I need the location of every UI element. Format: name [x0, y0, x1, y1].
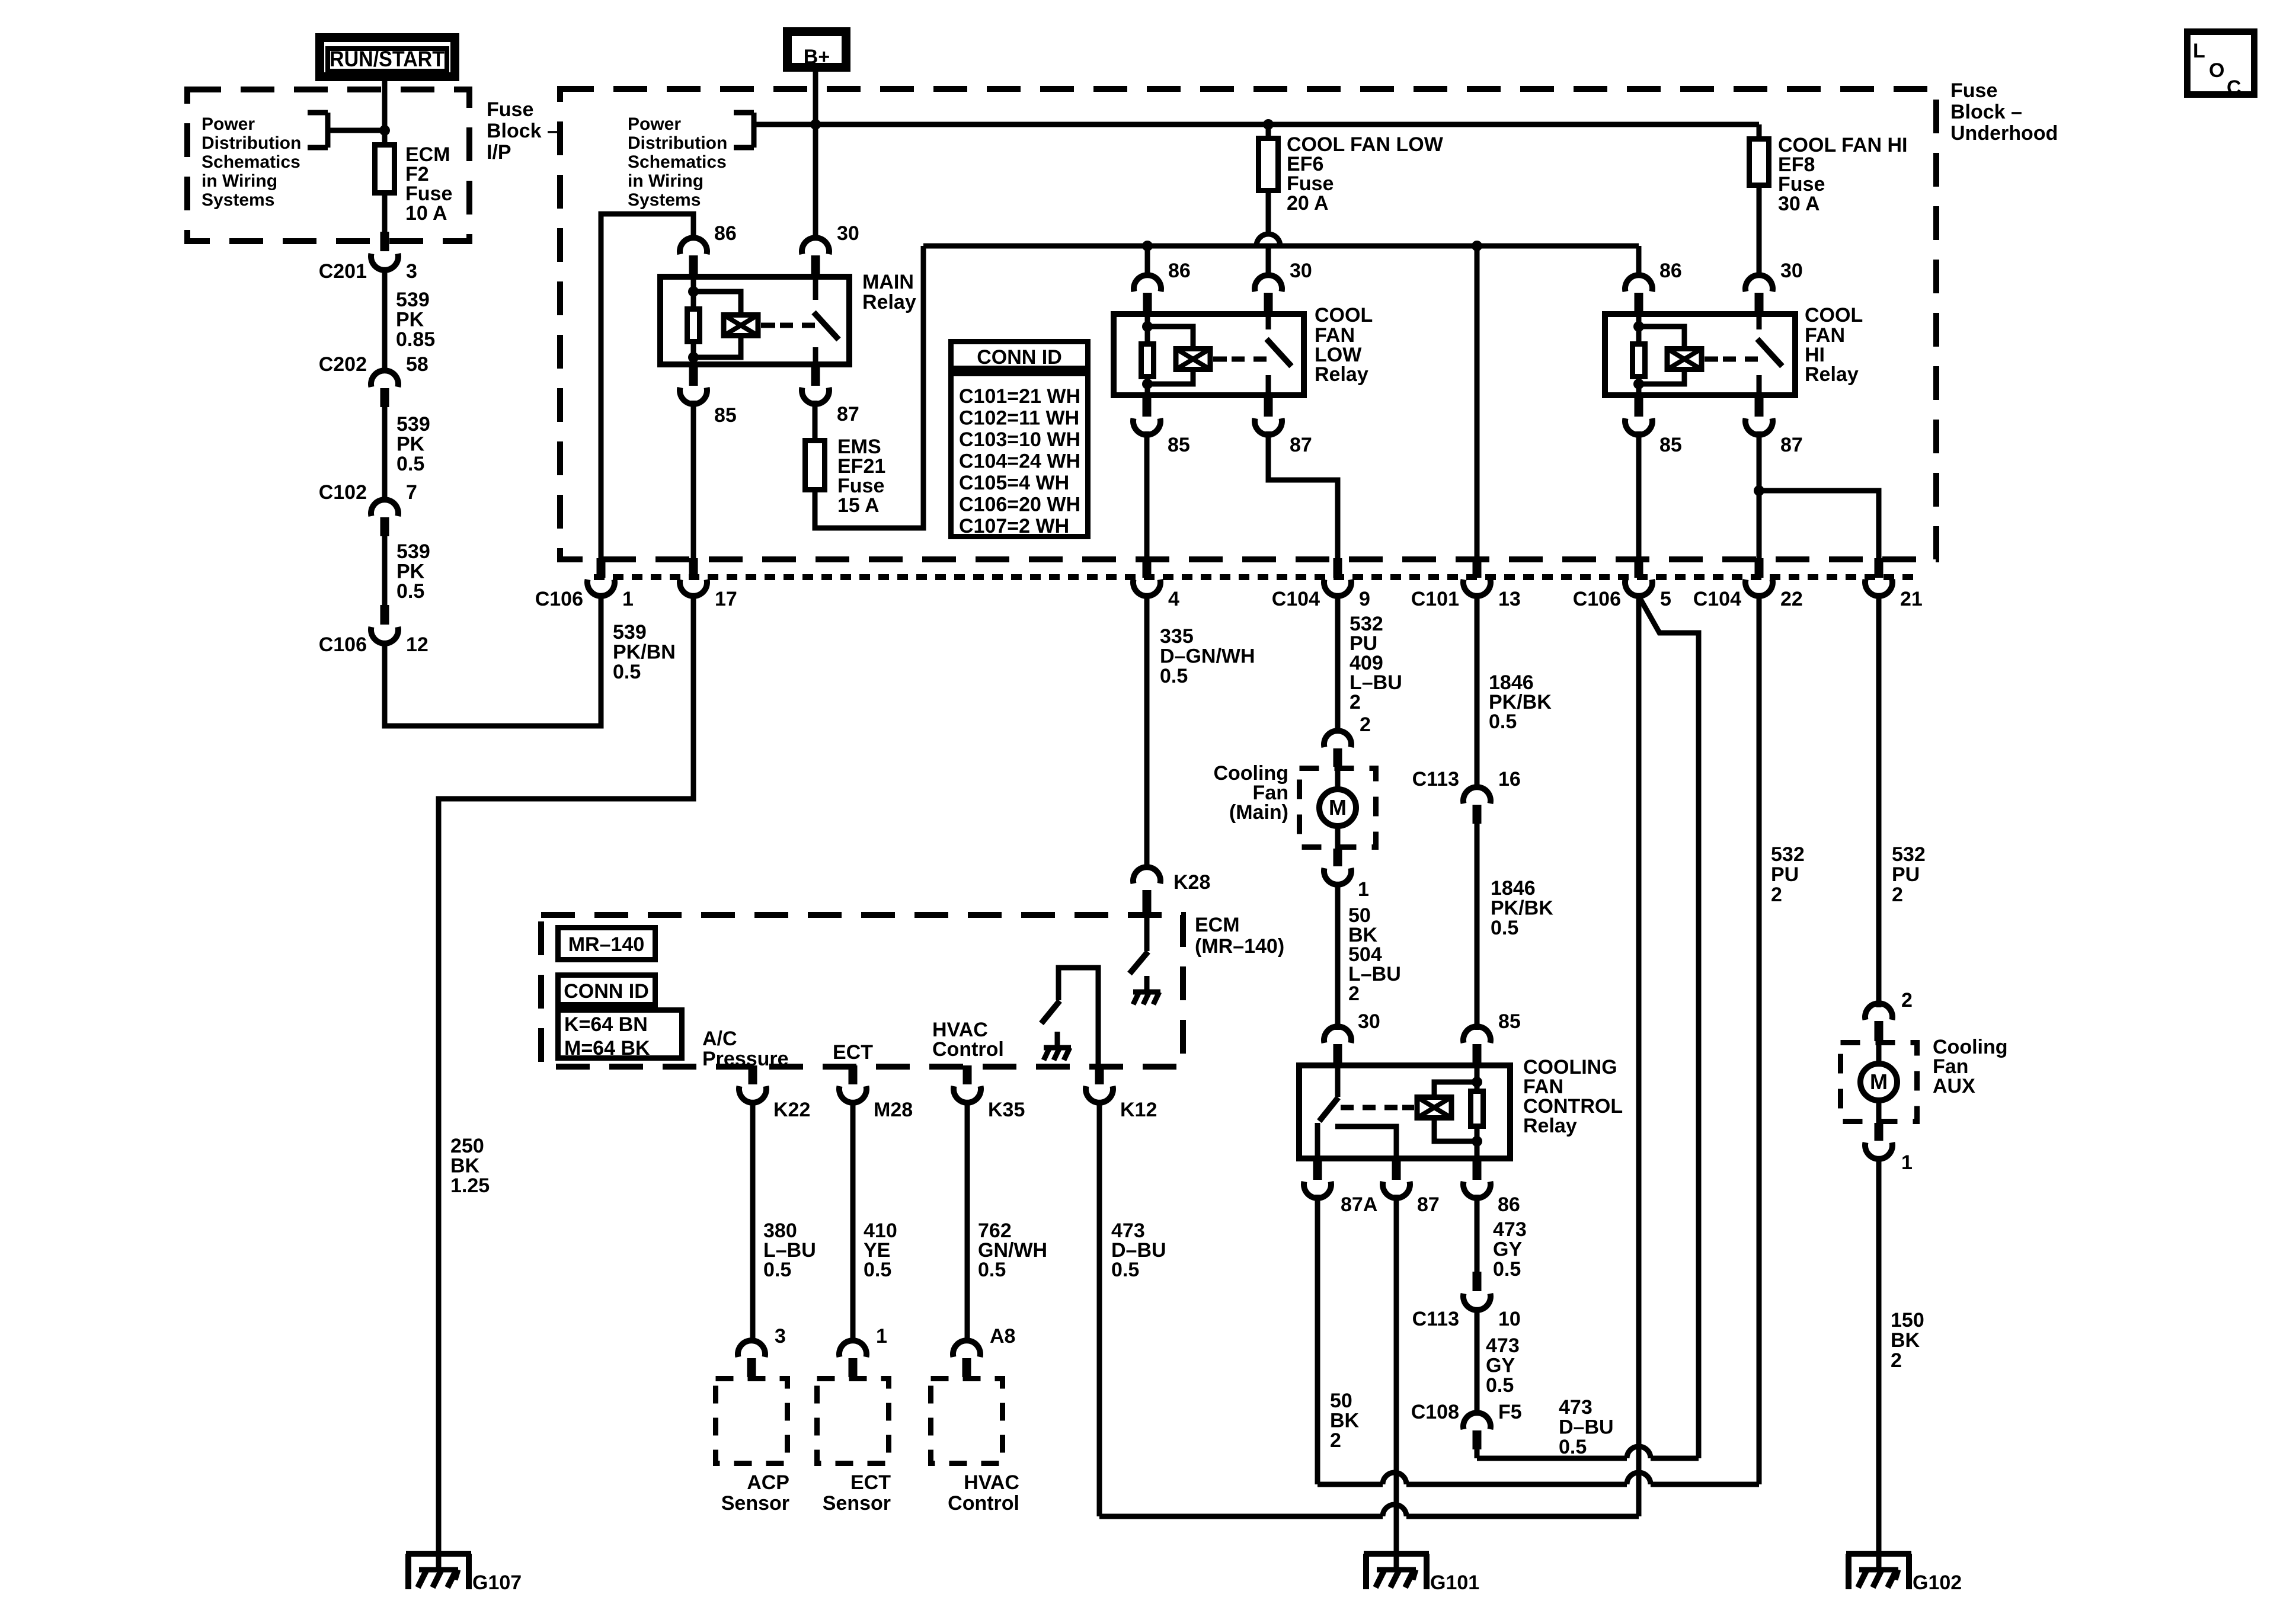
- motor Cooling Fan (Main): [1300, 769, 1376, 847]
- svg-text:Control: Control: [948, 1492, 1019, 1515]
- control relay switch: [1335, 1062, 1341, 1097]
- svg-text:C202: C202: [319, 353, 367, 376]
- control relay coil: [1417, 1097, 1451, 1118]
- svg-text:Sensor: Sensor: [721, 1492, 789, 1515]
- svg-text:in Wiring: in Wiring: [202, 171, 277, 191]
- wire control 86 down to C113-10: [1475, 1195, 1480, 1272]
- svg-text:2: 2: [1330, 1429, 1341, 1452]
- svg-text:30 A: 30 A: [1778, 193, 1820, 215]
- svg-text:Distribution: Distribution: [202, 133, 301, 153]
- HI relay pin 85 connector: [1635, 397, 1643, 417]
- LOW relay pin 87 connector: [1264, 397, 1273, 417]
- wire K12 to C106-5 run: [1097, 1102, 1102, 1516]
- HI relay pin 87 connector: [1755, 397, 1764, 417]
- svg-text:539: 539: [396, 540, 430, 563]
- svg-text:58: 58: [406, 353, 428, 376]
- bracket to B+ feed: [734, 110, 754, 116]
- svg-text:12: 12: [406, 633, 428, 656]
- svg-text:C103=10 WH: C103=10 WH: [959, 428, 1080, 451]
- svg-text:539: 539: [396, 289, 430, 311]
- connector C113 pin 16: [1463, 787, 1491, 804]
- wire LOW 87 jog to boundary C104-9: [1268, 431, 1338, 559]
- Fuse Block - I/P dashed outline: [187, 89, 469, 241]
- ECT Sensor dashed box: [817, 1379, 889, 1464]
- LOW relay pin 86 connector: [1134, 275, 1161, 292]
- connector sensor pin A8: [953, 1340, 980, 1357]
- svg-text:0.5: 0.5: [1489, 710, 1517, 733]
- wire C104-22 down, left to control 87A: [1757, 594, 1762, 1484]
- svg-text:9: 9: [1359, 588, 1370, 610]
- wire control 87 to G101: [1394, 1195, 1399, 1551]
- svg-text:86: 86: [1168, 260, 1191, 282]
- svg-text:Underhood: Underhood: [1950, 122, 2058, 145]
- wire bus corner to EF8 fuse: [1757, 124, 1762, 136]
- svg-text:335: 335: [1160, 625, 1194, 648]
- wire 473 D-BU K12 to C106-5: [1099, 1514, 1383, 1519]
- wire boundary 9 to cooling fan main: [1335, 594, 1341, 734]
- svg-text:COOL: COOL: [1805, 304, 1863, 327]
- wire HI 85 to boundary C106-5: [1636, 431, 1642, 559]
- svg-text:13: 13: [1498, 588, 1521, 610]
- svg-text:C113: C113: [1412, 768, 1459, 790]
- svg-text:150: 150: [1891, 1309, 1924, 1331]
- svg-text:10: 10: [1498, 1308, 1521, 1330]
- svg-text:G107: G107: [472, 1571, 522, 1594]
- svg-text:3: 3: [775, 1325, 786, 1347]
- wire EF6 to LOW relay 30: [1266, 246, 1271, 277]
- svg-text:A/C: A/C: [702, 1028, 737, 1050]
- control relay pin 86 connector: [1473, 1160, 1482, 1180]
- svg-text:C106=20 WH: C106=20 WH: [959, 494, 1080, 516]
- svg-text:RUN/START: RUN/START: [330, 47, 445, 71]
- svg-text:0.5: 0.5: [1493, 1258, 1521, 1281]
- relay MAIN Relay: [660, 277, 849, 364]
- MAIN relay pin 85 connector: [689, 366, 698, 386]
- MAIN relay switch: [761, 323, 775, 328]
- Fuse Block - Underhood dashed outline: [560, 89, 1936, 559]
- svg-text:1: 1: [622, 588, 634, 610]
- fuse COOL FAN LOW EF6 20A: [1259, 139, 1278, 191]
- CONN ID table: [951, 342, 1088, 369]
- svg-text:2: 2: [1360, 713, 1371, 736]
- fuse EMS EF21 15A: [805, 441, 825, 490]
- relay COOLING FAN CONTROL: [1299, 1065, 1510, 1158]
- wire 150 BK 2 to G102: [1876, 1158, 1882, 1551]
- svg-text:Block –: Block –: [487, 120, 558, 142]
- svg-text:1: 1: [1901, 1151, 1913, 1174]
- svg-text:GY: GY: [1486, 1355, 1515, 1377]
- svg-text:O: O: [2209, 59, 2224, 82]
- wire C113-16 to control relay 85: [1475, 824, 1480, 1030]
- svg-text:1.25: 1.25: [450, 1174, 490, 1197]
- svg-text:85: 85: [1498, 1010, 1521, 1033]
- svg-text:0.5: 0.5: [1111, 1259, 1139, 1281]
- wire 87A to C104-22 run: [1318, 1482, 1383, 1487]
- wire C106-12 to C106-1: [385, 594, 601, 726]
- svg-text:K35: K35: [988, 1099, 1025, 1121]
- svg-text:I/P: I/P: [487, 141, 511, 164]
- svg-text:Control: Control: [932, 1038, 1004, 1061]
- svg-text:C106: C106: [1573, 588, 1621, 610]
- wire MAIN 87 through EMS EF21 fuse: [813, 401, 818, 438]
- svg-text:Relay: Relay: [1805, 363, 1859, 386]
- svg-text:D–BU: D–BU: [1559, 1416, 1614, 1439]
- svg-text:L: L: [2193, 40, 2205, 62]
- svg-text:HVAC: HVAC: [964, 1471, 1019, 1494]
- control relay pin 30 connector: [1324, 1026, 1351, 1043]
- wire C106-5 straight down to K12 run: [1636, 594, 1642, 1516]
- ground G102: [1846, 1551, 1911, 1557]
- svg-text:532: 532: [1892, 843, 1926, 866]
- svg-text:17: 17: [715, 588, 737, 610]
- svg-text:250: 250: [450, 1135, 484, 1157]
- wire F5 stub to 473 D-BU run: [1475, 1449, 1480, 1458]
- MAIN relay coil: [724, 315, 758, 336]
- svg-text:21: 21: [1900, 588, 1923, 610]
- svg-text:30: 30: [1290, 260, 1312, 282]
- svg-text:CONN ID: CONN ID: [977, 346, 1062, 369]
- connector cooling fan main pin 1: [1334, 849, 1342, 866]
- wire to EF6 fuse: [1266, 124, 1271, 136]
- connector pin 21: [1875, 558, 1884, 578]
- junction dot B+ bus: [810, 119, 821, 130]
- svg-text:2: 2: [1771, 884, 1782, 906]
- control relay coil circuit: [1475, 1062, 1480, 1161]
- svg-text:BK: BK: [1330, 1410, 1360, 1432]
- wire boundary 4 to ECM K28: [1144, 594, 1150, 868]
- ECM CONN ID table: [558, 975, 655, 1005]
- svg-text:Schematics: Schematics: [628, 152, 727, 172]
- ground G101: [1364, 1551, 1429, 1557]
- svg-text:C201: C201: [319, 260, 367, 283]
- wire C113-10 to C108-F5: [1475, 1308, 1480, 1415]
- MAIN relay resistor: [687, 309, 700, 342]
- wire MAIN 85 down to boundary 17: [691, 401, 696, 559]
- connector sensor pin 1: [839, 1340, 866, 1357]
- MAIN relay pin 30 connector: [802, 238, 829, 254]
- bus 415: EF21 output to relays 86: [923, 244, 1639, 249]
- svg-text:MR–140: MR–140: [568, 933, 645, 956]
- svg-text:20 A: 20 A: [1287, 192, 1329, 215]
- svg-text:K28: K28: [1173, 871, 1210, 894]
- svg-text:0.5: 0.5: [1486, 1374, 1514, 1397]
- svg-text:C101=21 WH: C101=21 WH: [959, 385, 1080, 408]
- svg-text:5: 5: [1660, 588, 1671, 610]
- svg-text:1846: 1846: [1491, 877, 1536, 900]
- svg-text:15 A: 15 A: [837, 494, 880, 517]
- svg-text:0.5: 0.5: [978, 1259, 1006, 1281]
- connector ECM M28: [849, 1065, 858, 1084]
- svg-text:85: 85: [714, 404, 737, 427]
- svg-text:Fuse: Fuse: [1950, 79, 1997, 102]
- connector pin 4: [1143, 558, 1152, 578]
- svg-text:Relay: Relay: [1315, 363, 1368, 386]
- HI relay pin 30 connector: [1745, 275, 1773, 292]
- wire M28 to ECT sensor: [850, 1102, 856, 1343]
- LOC legend box: [2188, 32, 2255, 95]
- svg-text:87: 87: [1417, 1193, 1440, 1216]
- wire K22 to ACP sensor: [750, 1102, 756, 1343]
- bus B+ to EF6/EF8 fuses: [816, 122, 1759, 127]
- wire C101-13 from bus: [1475, 246, 1480, 559]
- wire K35 to HVAC control: [965, 1102, 970, 1343]
- svg-text:30: 30: [1780, 260, 1803, 282]
- svg-text:Systems: Systems: [202, 190, 274, 210]
- fuse COOL FAN HI EF8 30A: [1750, 139, 1769, 185]
- svg-text:C108: C108: [1411, 1401, 1459, 1423]
- svg-text:Schematics: Schematics: [202, 152, 300, 172]
- svg-text:16: 16: [1498, 768, 1521, 790]
- svg-text:86: 86: [1659, 260, 1682, 282]
- connector C106 pin 5: [1635, 558, 1643, 578]
- svg-text:Sensor: Sensor: [823, 1492, 891, 1515]
- svg-text:M28: M28: [874, 1099, 913, 1121]
- MAIN relay coil circuit: [691, 274, 696, 367]
- LOW relay switch: [1213, 357, 1227, 362]
- wire boundary 17 to G107: [439, 594, 693, 1551]
- svg-text:BK: BK: [450, 1155, 480, 1177]
- svg-text:0.5: 0.5: [396, 580, 424, 603]
- control relay pin 85 connector: [1463, 1026, 1491, 1043]
- svg-text:K22: K22: [773, 1099, 810, 1121]
- ground G107: [406, 1551, 471, 1557]
- wire bus corner down to HI 86: [1636, 246, 1642, 277]
- svg-text:C102=11 WH: C102=11 WH: [959, 407, 1079, 430]
- wire RUN/START to ECM F2 fuse: [382, 81, 388, 142]
- svg-text:C104=24 WH: C104=24 WH: [959, 450, 1080, 473]
- svg-text:4: 4: [1168, 588, 1179, 610]
- wire boundary 13 to C113-16: [1475, 594, 1480, 789]
- wire EF6 to crossover: [1266, 193, 1271, 234]
- svg-text:ECM: ECM: [1195, 914, 1240, 936]
- HI relay resistor: [1633, 344, 1645, 377]
- fuse ECM F2 10A: [375, 145, 395, 193]
- svg-text:0.5: 0.5: [763, 1259, 791, 1281]
- control relay resistor: [1471, 1092, 1483, 1126]
- svg-text:ACP: ACP: [747, 1471, 789, 1494]
- connector cooling fan AUX pin 1: [1875, 1123, 1884, 1141]
- crossover hop EF6 wire over bus: [1256, 234, 1280, 246]
- svg-text:87A: 87A: [1341, 1193, 1377, 1216]
- wire F2 fuse to C201: [382, 196, 388, 232]
- wire MAIN 86 up/left/down to C106-1: [601, 214, 693, 559]
- svg-text:10 A: 10 A: [405, 202, 447, 225]
- svg-text:0.5: 0.5: [1160, 665, 1188, 687]
- wire C106-5 slant branch down: [1639, 596, 1699, 1458]
- B+ power tag box: [788, 32, 846, 68]
- svg-text:PK: PK: [396, 561, 425, 583]
- svg-text:539: 539: [396, 413, 430, 436]
- HI relay switch: [1705, 357, 1718, 362]
- svg-text:22: 22: [1780, 588, 1803, 610]
- svg-text:2: 2: [1892, 884, 1903, 906]
- wire 50 BK / 504 L-BU 2 to control relay 30: [1335, 884, 1341, 1030]
- bracket to ECM F2 fuse: [308, 110, 328, 116]
- svg-text:0.5: 0.5: [864, 1259, 891, 1281]
- svg-text:50: 50: [1330, 1390, 1352, 1412]
- svg-text:3: 3: [406, 260, 417, 283]
- svg-text:30: 30: [837, 222, 859, 245]
- svg-text:Power: Power: [628, 114, 681, 134]
- svg-text:AUX: AUX: [1933, 1075, 1975, 1097]
- svg-text:ECT: ECT: [850, 1471, 891, 1494]
- wire bus to LOW 86: [1145, 246, 1150, 277]
- HI relay coil circuit: [1636, 311, 1642, 398]
- svg-text:85: 85: [1659, 434, 1682, 456]
- svg-text:0.5: 0.5: [1491, 917, 1518, 939]
- ECM K12 driver switch to ground: [1059, 968, 1098, 1067]
- ECM (MR-140) dashed outline: [541, 915, 1183, 1067]
- LOW relay resistor: [1141, 344, 1154, 377]
- svg-text:87: 87: [837, 403, 859, 425]
- HI relay pin 86 connector: [1625, 275, 1652, 292]
- svg-text:539: 539: [613, 621, 647, 644]
- motor Cooling Fan AUX: [1841, 1043, 1917, 1122]
- relay COOL FAN HI: [1605, 314, 1795, 395]
- svg-text:PK: PK: [396, 433, 425, 456]
- wire boundary 21 to cooling fan AUX: [1876, 594, 1882, 1007]
- wire 539 PK 0.85: [382, 268, 388, 372]
- svg-text:0.5: 0.5: [613, 661, 641, 683]
- RUN/START power tag box: [320, 38, 455, 77]
- svg-text:PK/BN: PK/BN: [613, 641, 676, 664]
- control relay pin 87A connector: [1313, 1160, 1322, 1180]
- ACP Sensor dashed box: [716, 1379, 788, 1464]
- svg-text:Relay: Relay: [1523, 1115, 1577, 1137]
- svg-text:473: 473: [1493, 1218, 1527, 1241]
- svg-text:PU: PU: [1892, 863, 1920, 886]
- svg-text:B+: B+: [804, 46, 830, 68]
- connector ECM K12: [1095, 1065, 1104, 1084]
- connector C104 pin 22: [1755, 558, 1764, 578]
- connector cooling fan main pin 2: [1324, 731, 1351, 747]
- connector C106 pin 1: [597, 558, 606, 578]
- svg-text:COOL: COOL: [1315, 304, 1373, 327]
- svg-text:Block –: Block –: [1950, 101, 2022, 123]
- svg-text:2: 2: [1350, 691, 1361, 713]
- connector C106 pin 12: [380, 605, 389, 625]
- svg-text:PK/BK: PK/BK: [1491, 897, 1553, 920]
- svg-text:in Wiring: in Wiring: [628, 171, 703, 191]
- MAIN relay pin 86 connector: [680, 238, 707, 254]
- wire control 87A down and right to C104-22 chain: [1315, 1195, 1320, 1484]
- svg-text:Distribution: Distribution: [628, 133, 727, 153]
- svg-text:PU: PU: [1771, 863, 1799, 886]
- connector ECM K35: [963, 1065, 972, 1084]
- svg-text:K=64 BN: K=64 BN: [564, 1013, 648, 1036]
- LOW relay pin 85 connector: [1143, 397, 1152, 417]
- connector pin 17: [689, 558, 698, 578]
- svg-text:0.5: 0.5: [396, 453, 424, 475]
- ECM K28 driver switch to ground: [1144, 916, 1150, 951]
- svg-text:M: M: [1329, 795, 1347, 820]
- svg-text:CONN ID: CONN ID: [564, 980, 649, 1003]
- svg-text:C105=4 WH: C105=4 WH: [959, 472, 1069, 494]
- svg-text:473: 473: [1559, 1396, 1593, 1419]
- svg-text:MAIN: MAIN: [862, 271, 914, 293]
- connector C104 pin 9: [1334, 558, 1342, 578]
- svg-text:86: 86: [714, 222, 737, 245]
- connector ECM K22: [749, 1065, 757, 1084]
- HVAC Control dashed box: [931, 1379, 1003, 1464]
- svg-text:C104: C104: [1693, 588, 1741, 610]
- svg-text:D–GN/WH: D–GN/WH: [1160, 645, 1255, 668]
- svg-text:1: 1: [1358, 878, 1369, 901]
- MAIN relay pin 87 connector: [811, 366, 820, 386]
- svg-text:C106: C106: [535, 588, 583, 610]
- relay COOL FAN LOW: [1114, 314, 1304, 395]
- svg-text:BK: BK: [1891, 1329, 1920, 1352]
- wire 539 PK 0.5: [382, 407, 388, 501]
- connector C113 pin 10: [1473, 1272, 1482, 1291]
- svg-text:2: 2: [1891, 1349, 1902, 1372]
- svg-text:M: M: [1870, 1070, 1888, 1094]
- svg-text:Power: Power: [202, 114, 255, 134]
- svg-text:PK: PK: [396, 309, 424, 331]
- svg-text:G101: G101: [1430, 1571, 1479, 1594]
- svg-text:C101: C101: [1411, 588, 1459, 610]
- connector ECM K28: [1133, 867, 1160, 884]
- svg-text:G102: G102: [1913, 1571, 1962, 1594]
- LOW relay coil: [1176, 349, 1210, 370]
- svg-text:2: 2: [1348, 982, 1360, 1005]
- svg-text:Systems: Systems: [628, 190, 701, 210]
- connector C102 pin 7: [371, 500, 398, 516]
- svg-text:2: 2: [1901, 989, 1913, 1012]
- svg-text:Relay: Relay: [862, 291, 916, 313]
- svg-text:C: C: [2227, 76, 2241, 99]
- wire B+ feed down to MAIN relay 30: [813, 72, 818, 239]
- connector C101 pin 13: [1473, 558, 1482, 578]
- wire 473 D-BU F5 to C106-5 branch: [1477, 1456, 1627, 1461]
- svg-text:K12: K12: [1120, 1099, 1157, 1121]
- harness boundary dotted line: [594, 574, 1920, 580]
- connector C202 pin 58: [371, 370, 398, 387]
- svg-text:(MR–140): (MR–140): [1195, 935, 1284, 958]
- junction dot EF6 tap: [1263, 119, 1274, 130]
- svg-text:C113: C113: [1412, 1308, 1459, 1330]
- svg-text:C107=2 WH: C107=2 WH: [959, 515, 1069, 537]
- junction dot on RUN/START feed: [379, 125, 390, 136]
- svg-text:M=64 BK: M=64 BK: [564, 1037, 650, 1060]
- svg-text:Pressure: Pressure: [702, 1048, 789, 1070]
- MR-140 tag box: [558, 928, 655, 960]
- LOW relay pin 30 connector: [1255, 275, 1282, 292]
- svg-text:C104: C104: [1272, 588, 1320, 610]
- control relay pin 87 connector: [1392, 1160, 1401, 1180]
- connector C108 terminal F5: [1463, 1413, 1491, 1429]
- svg-text:86: 86: [1498, 1193, 1520, 1216]
- LOW relay coil circuit: [1145, 311, 1150, 398]
- svg-text:0.85: 0.85: [396, 328, 435, 351]
- connector C201 pin 3: [380, 232, 389, 251]
- svg-text:532: 532: [1771, 843, 1805, 866]
- HI relay coil: [1667, 349, 1702, 370]
- svg-text:85: 85: [1168, 434, 1190, 456]
- svg-text:C106: C106: [319, 633, 367, 656]
- svg-text:A8: A8: [990, 1325, 1015, 1347]
- wire EF8 to HI relay 30: [1757, 188, 1762, 277]
- svg-text:87: 87: [1780, 434, 1803, 456]
- wire HI 87 to boundary C104-22 and branch to 21: [1757, 431, 1762, 559]
- svg-text:F5: F5: [1498, 1401, 1522, 1423]
- svg-text:30: 30: [1358, 1010, 1380, 1033]
- wire LOW 85 to boundary 4: [1144, 431, 1150, 559]
- svg-text:0.5: 0.5: [1559, 1436, 1587, 1458]
- svg-text:87: 87: [1290, 434, 1312, 456]
- svg-text:C102: C102: [319, 481, 367, 504]
- svg-text:(Main): (Main): [1229, 801, 1288, 824]
